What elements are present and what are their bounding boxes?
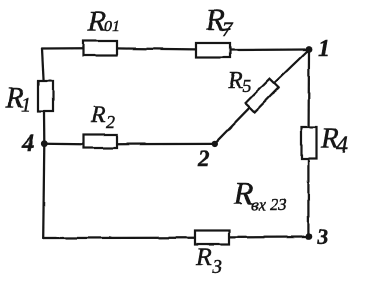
svg-text:4: 4 xyxy=(21,131,34,157)
label R2 xyxy=(90,102,115,132)
wire top-left corner to R01 xyxy=(42,47,83,50)
svg-text:2: 2 xyxy=(197,146,210,171)
resistor R3 xyxy=(195,231,229,245)
svg-text:3: 3 xyxy=(316,224,328,249)
svg-text:3: 3 xyxy=(211,256,222,278)
wire node 4 down to bottom corner xyxy=(43,144,44,239)
resistor R2 xyxy=(84,135,118,149)
wire node 2 to R5 xyxy=(215,107,251,144)
svg-text:вх 23: вх 23 xyxy=(251,195,287,214)
wire bottom corner to R3 xyxy=(43,237,195,239)
wire R1 to node 4 xyxy=(43,111,46,144)
svg-text:5: 5 xyxy=(242,76,251,96)
wire R5 to node 1 xyxy=(274,50,309,84)
label R01 xyxy=(87,5,120,37)
wire R4 to node 3 xyxy=(307,159,309,237)
wire node 4 to R2 xyxy=(44,143,83,146)
svg-text:1: 1 xyxy=(318,36,330,62)
label R1 xyxy=(5,82,31,116)
wire R2 to node 2 xyxy=(117,143,215,146)
wire R01 to R7 xyxy=(117,48,196,49)
label R3 xyxy=(195,244,222,278)
svg-text:1: 1 xyxy=(21,94,31,116)
svg-text:R: R xyxy=(195,244,211,271)
node 1 junction dot xyxy=(306,46,313,53)
svg-text:R: R xyxy=(90,102,105,127)
resistor R7 xyxy=(196,43,230,58)
svg-text:4: 4 xyxy=(336,133,348,159)
node 2 junction dot xyxy=(212,141,218,147)
wire R7 to node 1 xyxy=(230,48,309,51)
node 4 junction dot xyxy=(41,140,48,147)
svg-text:R: R xyxy=(227,68,243,94)
svg-text:2: 2 xyxy=(106,112,115,132)
label R5 xyxy=(227,68,251,96)
label Rвх23 xyxy=(233,175,287,214)
svg-text:01: 01 xyxy=(104,18,120,35)
wire left vertical top xyxy=(42,49,44,82)
resistor R1 xyxy=(38,81,53,111)
node 3 junction dot xyxy=(305,234,312,241)
resistor R01 xyxy=(83,41,117,56)
resistor R4 xyxy=(302,127,317,159)
label R4 xyxy=(320,123,348,159)
resistor R5 (diagonal) xyxy=(246,79,279,112)
wire R3 to node 3 xyxy=(229,236,308,239)
wire node1 to R4 xyxy=(307,50,310,128)
label R7 xyxy=(205,2,233,40)
